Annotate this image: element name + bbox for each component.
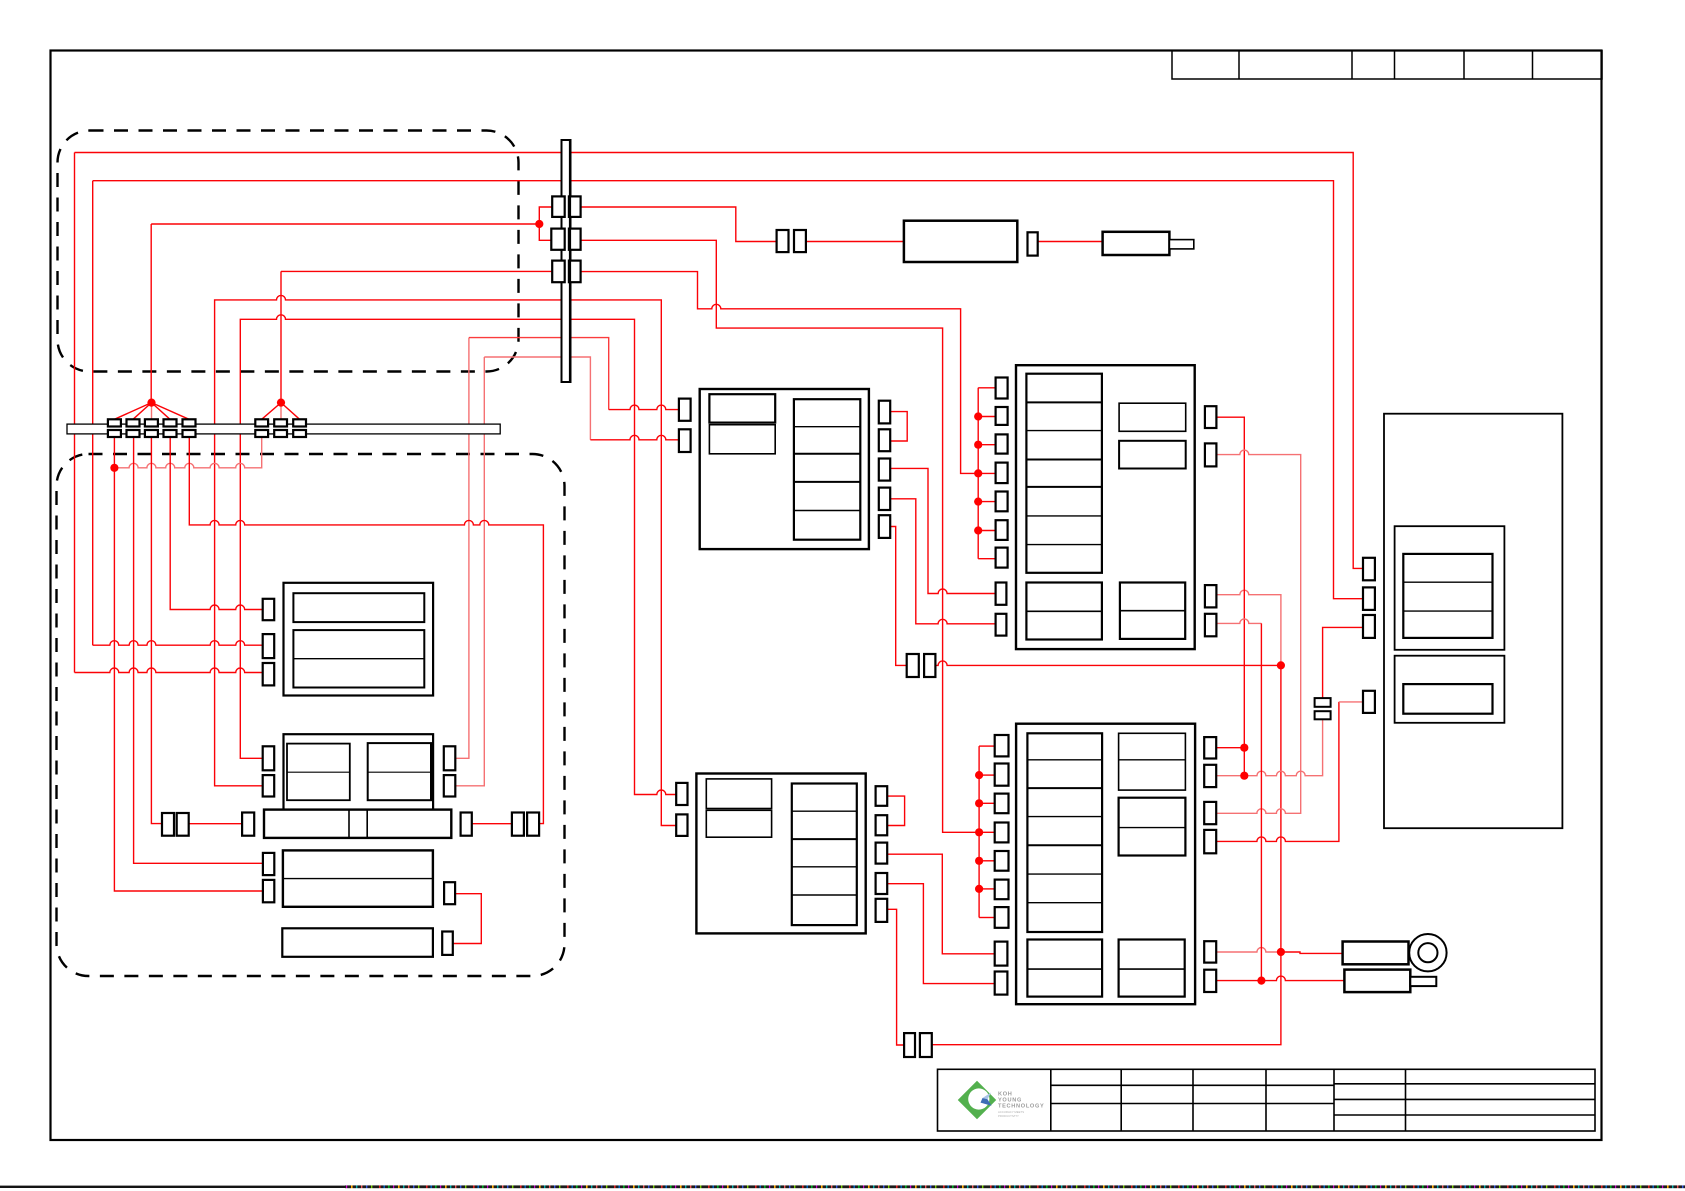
BC2 stack divider 1 [1027, 759, 1102, 761]
CC1 outer [700, 389, 869, 549]
connector C3 [263, 663, 275, 685]
wire fan2 line 3 [281, 403, 300, 420]
wire net-J [134, 437, 263, 864]
connector CR1b [876, 786, 888, 806]
mid unit left sub divider [287, 771, 350, 773]
junction N2 [1240, 772, 1248, 780]
BC2 outer [1016, 724, 1195, 1005]
CC1 right stack [794, 399, 860, 540]
BC1 left stack [1026, 374, 1102, 573]
CR5 pair left [907, 654, 919, 677]
connector L3 [996, 434, 1008, 453]
bottom footer line solid part [0, 1186, 345, 1188]
tall bus P2 left [551, 229, 564, 250]
bottom footer microtext stripe [345, 1185, 1685, 1188]
BC1 stack divider 4 [1026, 486, 1102, 488]
tall bus P1 left [552, 196, 565, 217]
strip box [282, 928, 433, 957]
wire fan1 line 3 [151, 403, 153, 420]
connector C4 [263, 746, 275, 770]
connector L4 [996, 463, 1008, 484]
junction M-net 3 [975, 828, 983, 836]
left unit outer [284, 583, 434, 696]
BC2 right box A [1119, 733, 1186, 790]
wire net-X R1 drop [1216, 417, 1244, 776]
connector CR2b [876, 815, 888, 835]
left unit rows23 [293, 630, 424, 687]
CR5b pair left [904, 1033, 915, 1057]
bus group1 bottom block 4 [164, 430, 177, 437]
bus group1 top block 3 [145, 419, 158, 426]
camera lens circle [1409, 934, 1446, 971]
plug pin [1169, 240, 1193, 249]
tall bus P1 right [569, 196, 581, 217]
junction M-net 1 [975, 771, 983, 779]
connector C2 [263, 634, 275, 658]
connector K3 [1363, 615, 1375, 638]
connector CR3 [879, 459, 890, 481]
connector M8 [995, 942, 1008, 966]
bus group2 bottom block 2 [274, 430, 287, 437]
battery box outer [283, 850, 433, 906]
connector L6 [996, 520, 1008, 540]
wire fan1 line 5 [152, 403, 190, 420]
BC1 outer [1016, 365, 1195, 649]
wire net-F [240, 315, 676, 795]
wire net-AC [887, 854, 994, 954]
CC2 left box1 [706, 779, 771, 809]
junction R3/CR5-pair [1277, 661, 1285, 669]
bus group1 bottom block 3 [145, 430, 158, 437]
connector C7 [444, 775, 456, 796]
connector C6 [444, 746, 456, 770]
junction fan2 [277, 399, 285, 407]
wire net-R3 bottom [932, 952, 1281, 1045]
bus group1 bottom block 1 [108, 430, 121, 437]
connector M7 [995, 907, 1009, 928]
connector L8 [996, 583, 1007, 605]
wire net-M [189, 437, 543, 824]
wire net-Y [1216, 450, 1301, 813]
wire net-U [890, 468, 995, 593]
connector N5 [1204, 941, 1216, 962]
filter box [904, 221, 1017, 262]
wire net-B top run to K2 [93, 181, 1363, 599]
inline connector [1028, 232, 1038, 255]
connector N3 [1204, 802, 1216, 824]
terminal block bottom [1315, 711, 1331, 719]
connector K1 [1363, 558, 1375, 581]
connector D2 [263, 880, 274, 902]
connector CL1 [679, 399, 691, 421]
BC2 bottom-right pair [1119, 940, 1185, 997]
bus bar [67, 424, 500, 434]
wire pair to filter box [806, 241, 904, 243]
connector D3 right [444, 882, 455, 904]
CC2 stack divider 2 [792, 838, 857, 840]
wire net-G top run [469, 338, 609, 410]
CR5 pair right [924, 654, 935, 677]
wire net-B vertical left [92, 181, 94, 646]
Koh Young logo text [998, 1092, 1044, 1119]
connector R4 [1205, 614, 1217, 637]
battery box divider [283, 878, 433, 880]
tall bus P2 right [569, 229, 581, 250]
bus group1 top block 1 [108, 419, 121, 426]
wire net-D vertical to fan2 [280, 271, 282, 402]
wire net-G into CL1 [609, 405, 679, 410]
BC1 stack divider 1 [1026, 401, 1102, 403]
wire box2-box3 link [453, 894, 482, 944]
connector R1 [1205, 406, 1217, 428]
wire fan2 line 2 [280, 403, 282, 420]
BC1 stack divider 6 [1026, 544, 1102, 546]
wire fan1 line 2 [133, 403, 152, 420]
BC1 stack divider 2 [1026, 430, 1102, 432]
svg-text:PRODUCTIVITY: PRODUCTIVITY [998, 1114, 1019, 1118]
junction L-net 1 [974, 412, 982, 420]
connector L9 [996, 614, 1007, 636]
wire CR5b to pair [887, 909, 904, 1045]
junction tall-bus tee [535, 220, 543, 228]
wire net-E [215, 295, 677, 825]
left unit row1 [293, 593, 424, 622]
wire net-A horizontal into C3 [75, 668, 263, 673]
wire net-D horizontal to P3L [281, 270, 552, 272]
wire net-L [170, 437, 263, 610]
BC1 bottom-left pair divider [1026, 610, 1102, 612]
BC2 stack divider 2 [1027, 787, 1102, 789]
dashed group box upper [58, 131, 519, 372]
BC2 bottom-left pair [1027, 940, 1102, 997]
junction N5 [1277, 948, 1285, 956]
RC stack divider 2 [1403, 610, 1492, 612]
mid unit bar [264, 810, 451, 838]
BC2 stack divider 3 [1027, 816, 1102, 818]
svg-text:TECHNOLOGY: TECHNOLOGY [998, 1104, 1044, 1110]
connector R2 [1205, 443, 1217, 466]
connector N2 [1204, 765, 1216, 787]
connector L1 [996, 378, 1008, 399]
wire net-C vertical to fan1 [150, 224, 152, 403]
BC1 right box B [1119, 441, 1186, 469]
bar far-right pair 1 [512, 813, 524, 836]
wire net-R3 top [1216, 590, 1281, 665]
connector M1 [995, 735, 1009, 756]
connector pair A right [794, 230, 806, 252]
wire net-AA to camera2 [1261, 976, 1344, 981]
connector M9 [995, 972, 1008, 995]
junction L-net 2 [974, 441, 982, 449]
connector C1 [263, 599, 275, 620]
CC2 stack divider 1 [792, 810, 857, 812]
wire bar left pair to single [189, 823, 242, 825]
BC2 bottom-left pair divider [1027, 968, 1102, 970]
connector CL2b [676, 814, 687, 836]
wire net-K [151, 437, 162, 824]
wire L-net to L5 [978, 501, 995, 503]
bus group2 bottom block 3 [293, 430, 306, 437]
wire net-AA R4 stub [1216, 619, 1261, 624]
tall bus heavy edge [569, 141, 571, 381]
junction M-net 4 [975, 857, 983, 865]
wire M-net to M7 [979, 917, 995, 919]
wire net-AD [887, 884, 994, 984]
wire net-I pink run [114, 437, 261, 468]
wire net-H top run [484, 357, 590, 440]
junction L-net 4 [974, 498, 982, 506]
BC1 stack divider 3 [1026, 459, 1102, 461]
wire L-net to L7 [978, 558, 995, 560]
BC2 right box B [1119, 798, 1186, 856]
wire net-W stub [890, 527, 907, 666]
connector R3 [1205, 585, 1217, 607]
connector M3 [995, 794, 1009, 814]
wire net-X N2 run [1216, 719, 1322, 775]
connector CL2 [679, 429, 691, 452]
junction bus1 net [110, 464, 118, 472]
bus group1 top block 2 [127, 419, 140, 426]
wire net-R3 to N5 [1216, 948, 1281, 953]
wire net-AA vertical [1260, 623, 1262, 980]
CC1 stack divider 4 [794, 510, 860, 512]
junction L-net 5 [974, 526, 982, 534]
mid unit right sub [368, 743, 431, 800]
bar far-right pair 2 [527, 813, 539, 836]
bus group1 top block 4 [164, 419, 177, 426]
wire L-net to L2 [978, 416, 995, 418]
BC1 right box A [1119, 403, 1186, 431]
terminal block top [1315, 698, 1331, 707]
plug body [1103, 232, 1170, 255]
bar left single connector [242, 813, 254, 836]
wire net-G left leg [455, 338, 469, 759]
BC2 left stack [1027, 733, 1102, 932]
RC stack [1403, 554, 1492, 638]
connector CR4 [879, 488, 890, 510]
connector N1 [1204, 737, 1216, 758]
connector CR2 [879, 429, 890, 451]
wire M-net to M5 [979, 860, 995, 862]
bar far-left pair 1 [162, 813, 174, 836]
junction M-net 5 [975, 885, 983, 893]
wire net-AA N6 stub [1216, 980, 1261, 982]
bus group2 bottom block 1 [255, 430, 268, 437]
BC2 stack divider 4 [1027, 844, 1102, 846]
BC1 bottom-right pair [1120, 583, 1185, 639]
connector CR3b [876, 843, 888, 864]
connector L7 [996, 548, 1008, 568]
connector M2 [995, 764, 1009, 786]
wire net-C branch to P2L [539, 224, 551, 240]
connector K2 [1363, 587, 1375, 610]
BC2 right box B divider [1119, 827, 1186, 829]
bar far-left pair 2 [177, 813, 189, 836]
camera body 2 [1344, 970, 1410, 993]
CC2 stack divider 4 [792, 894, 857, 896]
connector D4 right [442, 932, 453, 955]
bus group1 bottom block 2 [127, 430, 140, 437]
CR5b pair right [920, 1033, 932, 1057]
tall bus body [562, 140, 571, 382]
wire net-S P1R run [581, 207, 777, 242]
mid bar divider 2 [366, 810, 368, 838]
wire M-net vertical [978, 746, 980, 917]
wire L-net to L6 [978, 530, 995, 532]
wire M-net to M2 [979, 774, 995, 776]
wire net-C horizontal [151, 223, 539, 225]
CC2 outer [696, 774, 865, 934]
wire fan1 line 1 [114, 403, 151, 420]
wire net-B horizontal into C2 [93, 641, 263, 646]
connector K4 [1363, 691, 1375, 713]
wire net-Z K4 stub [1339, 701, 1363, 703]
connector N4 [1204, 830, 1216, 853]
wire L-net vertical [977, 388, 979, 559]
wire net-C branch to P1L [539, 207, 552, 224]
connector M4 [995, 823, 1009, 843]
CC2 stack divider 3 [792, 866, 857, 868]
wire fan2 line 1 [262, 403, 281, 420]
wire net-R3 to camera1 [1281, 952, 1343, 953]
CC1 left box2 [709, 425, 775, 454]
wire net-W long run [935, 661, 1281, 666]
connector CR4b [876, 873, 888, 894]
connector D1 [263, 853, 274, 875]
BC1 bottom-left pair [1026, 583, 1102, 640]
wire net-R [581, 272, 979, 474]
RC stack divider 1 [1403, 581, 1492, 583]
connector CL1b [676, 783, 687, 805]
wire net-H into CL2 [590, 435, 679, 440]
CC1 stack divider 3 [794, 481, 860, 483]
BC2 stack divider 5 [1027, 873, 1102, 875]
connector CR5 [879, 515, 890, 538]
connector pair A left [777, 230, 789, 252]
BC1 stack divider 5 [1026, 515, 1102, 517]
left unit rows divider [293, 658, 424, 660]
wire M-net to M3 [979, 802, 995, 804]
wire net-I vertical [114, 437, 263, 892]
wire net-Q [581, 240, 980, 832]
CC1 stack divider 2 [794, 453, 860, 455]
mid unit right sub divider [368, 771, 431, 773]
RC outer [1384, 414, 1562, 829]
header revision table [1172, 51, 1602, 79]
BC2 stack divider 6 [1027, 902, 1102, 904]
connector C5 [263, 775, 275, 796]
bus group2 top block 3 [293, 419, 306, 426]
camera body 1 [1343, 942, 1409, 965]
junction N6 [1257, 977, 1265, 985]
CC2 right stack [792, 784, 857, 926]
wire M-net to M6 [979, 888, 995, 890]
tall bus P3 right [569, 261, 581, 283]
wire M-net to M1 [979, 745, 995, 747]
wire bar single to right pair [472, 823, 512, 825]
wire fan1 line 4 [152, 403, 171, 420]
wire L-net to L4 [978, 472, 995, 474]
junction N1/R1 [1240, 744, 1248, 752]
tall bus P3 left [552, 261, 565, 283]
bar right single connector [461, 813, 472, 836]
RC inner box [1403, 684, 1492, 714]
bus group1 top block 5 [183, 419, 196, 426]
CC1 stack divider 1 [794, 426, 860, 428]
wire M-net to M4 [979, 831, 995, 833]
connector CR1 [879, 401, 890, 424]
camera pin [1410, 977, 1436, 986]
BC2 right box A divider [1119, 759, 1186, 761]
wire net-V [890, 499, 995, 624]
BC2 bottom-right pair divider [1119, 968, 1185, 970]
RC inner frame 2 [1395, 656, 1505, 723]
title block table [938, 1069, 1596, 1131]
dashed group box lower [57, 454, 565, 976]
wire net-Z [1216, 702, 1339, 842]
wire net-X N1 stub [1216, 747, 1244, 749]
mid unit left sub [287, 744, 350, 801]
wire L-net to L1 [978, 387, 995, 389]
wire L-net to L3 [978, 444, 995, 446]
CC2 left box2 [706, 810, 771, 837]
mid unit outer [284, 734, 434, 809]
junction L-net 3 [974, 469, 982, 477]
wire net-A vertical left [74, 153, 76, 673]
wire net-X K3 link [1323, 627, 1363, 698]
bus group1 bottom block 5 [183, 430, 196, 437]
bus group2 top block 2 [274, 419, 287, 426]
wire net-H left leg [455, 357, 484, 786]
wire CR1b-CR2b bracket [887, 796, 904, 825]
BC1 bottom-right pair divider [1120, 610, 1185, 612]
wire CR1-CR2 bracket [890, 412, 907, 441]
Koh Young logo diamond [958, 1081, 996, 1119]
junction M-net 2 [975, 799, 983, 807]
wire conn to plug [1038, 241, 1103, 243]
mid bar divider 1 [348, 810, 350, 838]
connector CR5b [876, 899, 888, 922]
wire net-A top run to K1 [75, 153, 1364, 569]
junction fan1 [147, 399, 155, 407]
connector M5 [995, 851, 1009, 871]
RC inner frame 1 [1395, 526, 1505, 650]
CC1 left box1 [709, 394, 775, 422]
connector L5 [996, 492, 1008, 512]
connector M6 [995, 880, 1009, 900]
connector L2 [996, 407, 1008, 425]
bus group2 top block 1 [255, 419, 268, 426]
wire net-R3 vertical [1280, 665, 1282, 952]
connector N6 [1204, 970, 1216, 992]
